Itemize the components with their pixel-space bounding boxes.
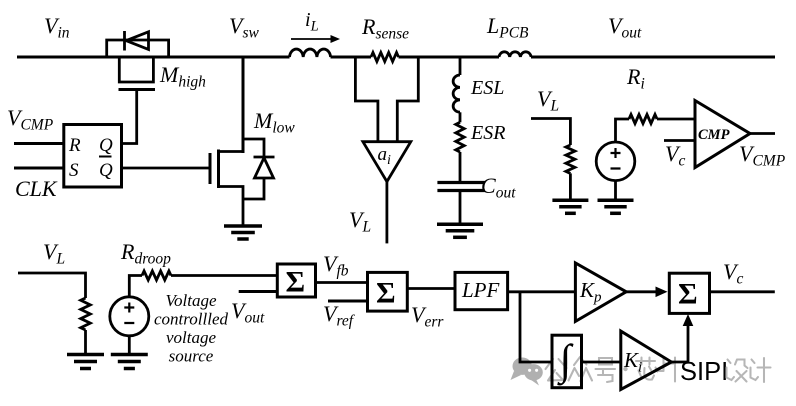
ground VL resistor: [552, 199, 588, 203]
svg-text:ESR: ESR: [470, 122, 505, 144]
svg-text:CLK: CLK: [15, 176, 58, 201]
summer sigma3: [669, 273, 709, 313]
wire: [459, 191, 462, 225]
voltage source VCVS: [110, 297, 149, 336]
wire ai output: [385, 182, 388, 244]
wire: [84, 330, 87, 355]
wire Mlow source: [219, 187, 244, 227]
note voltage controlled voltage source: [154, 291, 228, 366]
wire VCVS bottom: [128, 336, 131, 355]
wire Ri to comparator: [657, 118, 695, 121]
svg-text:Q: Q: [99, 160, 113, 181]
ground Cout: [437, 223, 483, 227]
wire Vout input: [239, 290, 278, 293]
svg-text:R: R: [68, 135, 81, 156]
wire VL bottom: [18, 273, 86, 298]
watermark text 公众号·芯片SIPI设计: [546, 357, 676, 382]
wire Rdroop to sum1: [171, 274, 277, 277]
wire sense tap left: [355, 57, 378, 142]
ground source: [598, 199, 634, 203]
resistor ESR: [456, 122, 464, 152]
resistor Ri: [629, 115, 657, 124]
svg-text:CMP: CMP: [698, 127, 730, 143]
ground Mlow: [224, 224, 262, 228]
resistor Rsense: [371, 53, 398, 62]
svg-text:ESL: ESL: [470, 77, 504, 99]
transistor Mhigh body-diode loop: [107, 40, 169, 57]
voltage source ramp: [596, 142, 635, 181]
diode of Mlow branch: [243, 139, 264, 199]
gain Kp: [575, 263, 626, 322]
wire CMP output: [750, 132, 775, 135]
wire Qbar to Mlow gate: [122, 167, 211, 170]
svg-text:S: S: [69, 160, 79, 181]
wire Vref input: [328, 300, 368, 303]
svg-text:Q: Q: [99, 135, 113, 156]
block LPF: [455, 272, 508, 309]
inductor L coil: [290, 49, 331, 57]
ground VL bottom: [67, 353, 104, 357]
wire source top: [616, 119, 630, 142]
wire source bottom: [614, 181, 617, 201]
inductor LPCB: [499, 52, 531, 57]
wire R input: [14, 142, 64, 145]
wire: [569, 173, 572, 200]
resistor Rdroop: [142, 271, 171, 280]
transistor Mlow channel bar: [217, 150, 220, 189]
wire Verr: [407, 287, 455, 290]
wire Vfb: [316, 281, 368, 284]
svg-text:Σ: Σ: [286, 266, 306, 299]
wire Vc output: [710, 290, 775, 293]
svg-text:controllled: controllled: [154, 310, 228, 329]
wire Vc input: [664, 139, 695, 142]
wire S input: [14, 167, 64, 170]
svg-text:Σ: Σ: [678, 278, 698, 311]
op-amp ai: [363, 142, 411, 182]
wire Vsw vertical: [242, 57, 245, 153]
inductor ESL: [453, 75, 460, 112]
wire gate Mhigh to Q: [122, 90, 137, 144]
wire integrator to Ki: [582, 361, 621, 364]
svg-text:source: source: [169, 347, 214, 366]
wire LPF to Kp: [508, 290, 576, 293]
transistor Mlow gate bar: [209, 153, 212, 184]
ground VCVS: [111, 353, 148, 357]
comparator CMP: [695, 101, 750, 168]
wire arrow Ki to sigma3: [671, 322, 688, 362]
svg-text:Voltage: Voltage: [166, 291, 217, 310]
summer sigma2: [368, 272, 408, 311]
wire rail between L and Rsense: [331, 56, 372, 59]
summer sigma1: [277, 264, 315, 297]
watermark icon speech bubbles: [511, 358, 543, 386]
wire arrow Kp to sigma3: [626, 290, 658, 293]
wire Mlow drain: [219, 150, 244, 153]
RS latch box: [64, 125, 122, 188]
resistor VL bottom: [81, 298, 91, 330]
diode of Mhigh: [123, 31, 126, 51]
wire: [459, 112, 462, 122]
wire VCVS top: [129, 276, 142, 297]
block integrator: [552, 335, 582, 388]
wire VL: [531, 119, 570, 146]
resistor VL: [566, 145, 575, 173]
capacitor Cout: [437, 181, 484, 184]
wire ESL branch top: [459, 57, 462, 75]
wire branch down from LPF: [520, 292, 552, 362]
transistor Mhigh channel: [119, 57, 153, 82]
svg-text:∫: ∫: [557, 337, 574, 386]
wire Vout rail: [399, 56, 500, 59]
wire Vin rail: [17, 56, 290, 59]
wire: [459, 152, 462, 182]
gain Ki: [621, 331, 672, 389]
svg-text:LPF: LPF: [461, 278, 500, 302]
svg-text:voltage: voltage: [166, 328, 216, 347]
svg-text:Σ: Σ: [376, 277, 396, 310]
wire sense tap right: [397, 57, 418, 142]
